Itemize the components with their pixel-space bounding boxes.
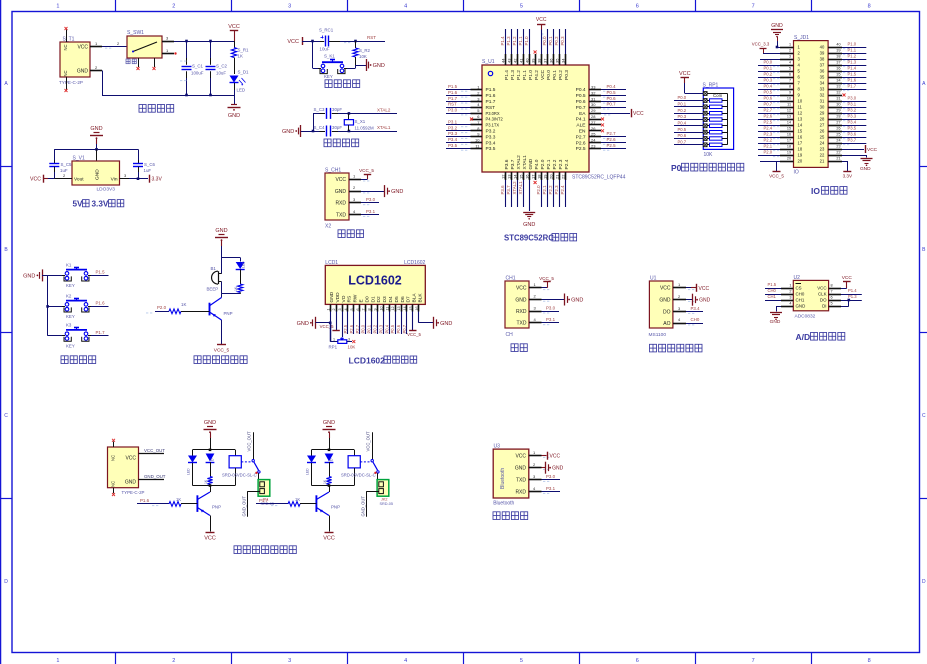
wire net P0.0 top [547,29,549,54]
svg-text:1: 1 [333,338,335,342]
svg-text:40: 40 [820,45,825,50]
svg-text:P1.2: P1.2 [848,54,857,59]
svg-text:GND: GND [552,466,564,472]
connector S_JD1 40-pin [794,41,829,168]
MCU S_U1 STC89C52RC_LQFP44 body [482,65,589,172]
svg-text:34: 34 [560,58,565,63]
svg-text:LDO3V3: LDO3V3 [97,187,116,193]
svg-text:D2: D2 [376,296,382,302]
svg-text:7: 7 [752,658,755,664]
ground GND right of LCD [418,312,420,323]
wire LDO top rail [54,149,138,151]
wire net P0.4 to RP1 [674,125,703,127]
ground GND keys [42,269,44,281]
svg-text:KEY: KEY [66,344,75,349]
svg-text:S_C3: S_C3 [314,107,326,112]
connector S_T1 TYPE-C-2P [60,42,90,77]
svg-text:P4.1: P4.1 [576,117,586,123]
svg-text:E: E [359,299,365,302]
wire JD1 pin3 [760,59,780,61]
svg-text:37: 37 [542,58,547,63]
svg-text:GND: GND [860,166,871,172]
wire net P0.7 left of JD1 [758,107,780,109]
svg-text:BLK: BLK [418,293,424,303]
svg-text:29: 29 [836,109,840,113]
svg-text:P3.0: P3.0 [448,108,458,113]
power port VCC_5 on LCD VDD [336,312,338,331]
svg-text:TYPE-C-2P: TYPE-C-2P [122,490,145,495]
svg-text:PNP: PNP [212,505,221,510]
svg-text:CH: CH [506,332,514,338]
ADC U2 ADC0832 [793,280,828,310]
pin 5 DI of U2 [829,306,841,308]
svg-text:3: 3 [338,308,342,310]
svg-text:MS1100: MS1100 [649,332,667,338]
svg-text:P3.6: P3.6 [500,185,505,195]
svg-text:VCC_5: VCC_5 [359,168,374,173]
wire net P2.7 left of JD1 [758,113,780,115]
svg-text:VCC: VCC [699,286,710,292]
wire net P2.7 of LCD pin 6 [359,312,361,335]
wire net P1.1 right of JD1 [842,53,866,55]
wire relay top rail [312,449,355,451]
svg-text:28: 28 [820,117,825,122]
wire net XTAL1 bottom [523,180,525,207]
wire net P3.7 bottom [511,180,513,207]
svg-text:P0.0: P0.0 [764,60,773,65]
wire net P0.5 to RP1 [674,132,703,134]
svg-text:GND: GND [297,321,309,327]
caption 复位电路 [325,80,332,88]
svg-text:10: 10 [379,306,383,310]
svg-text:VCC_5: VCC_5 [320,324,334,329]
svg-text:24: 24 [591,138,596,143]
svg-text:1uF: 1uF [144,168,152,173]
svg-text:VO: VO [341,295,347,302]
svg-text:P0.0: P0.0 [678,95,687,100]
wire P3.1 on U3 pin4 [542,491,561,493]
svg-text:GND: GND [659,298,671,304]
svg-text:P0.1: P0.1 [764,66,773,71]
svg-text:27: 27 [836,121,840,125]
svg-text:P2.6: P2.6 [607,137,617,142]
no-connect JD1 pin 32 [843,94,846,97]
connector S_CH1 X2 [325,173,349,220]
svg-text:P2.6: P2.6 [576,140,586,146]
svg-text:TXD: TXD [516,478,526,484]
wire net P0.3 left of JD1 [758,83,780,85]
wire reset top [313,41,321,43]
svg-text:P1.4: P1.4 [848,66,857,71]
svg-text:IO: IO [794,170,799,176]
svg-text:C: C [922,413,926,419]
svg-text:8: 8 [868,4,871,10]
wire net P0.2 top [559,29,561,54]
key K3 KEY [48,335,62,337]
svg-text:VDD: VDD [335,292,341,303]
svg-text:2: 2 [172,658,175,664]
power port VCC_5 on CH1 pin1 [542,287,548,289]
svg-text:VCC: VCC [633,111,644,117]
svg-text:KEY: KEY [66,314,75,319]
svg-text:P3.1: P3.1 [366,209,376,214]
svg-text:30pF: 30pF [332,125,342,130]
LED S_D1 [230,76,239,83]
svg-text:RXD: RXD [335,201,346,207]
svg-text:LED: LED [242,261,246,268]
svg-text:P1.2: P1.2 [512,36,517,46]
svg-text:S_CH1: S_CH1 [325,168,341,174]
svg-text:EA: EA [579,111,586,117]
wire net P1.3 on DO [841,300,862,302]
svg-text:8: 8 [368,308,372,310]
svg-text:RS: RS [347,296,353,303]
svg-text:P1.4: P1.4 [500,36,505,46]
svg-text:5: 5 [520,4,523,10]
pin 6 DO of U2 [829,300,841,302]
svg-text:VCC: VCC [660,286,671,292]
svg-text:6: 6 [831,295,833,299]
wire net P1.0 right of JD1 [842,47,866,49]
wire net P2.4 bottom [565,180,567,207]
connector TYPE-C-2P output [108,447,139,488]
wire net P0.6 left of JD1 [758,101,780,103]
wire net P3.7 right of JD1 [842,143,866,145]
svg-text:P1.5: P1.5 [448,84,458,89]
svg-text:1: 1 [326,308,330,310]
svg-text:P3.6: P3.6 [504,159,510,169]
svg-text:PNP: PNP [331,505,340,510]
svg-text:P1.5: P1.5 [848,72,857,77]
svg-text:XTAL1: XTAL1 [377,125,391,130]
svg-text:VCC: VCC [323,536,335,542]
svg-text:D5: D5 [394,296,400,302]
svg-text:P3.2: P3.2 [486,129,496,135]
wire net P0.7 [601,107,626,109]
svg-text:3: 3 [789,55,791,59]
wire net P2.5 of LCD pin 4 [347,312,349,335]
wire net P2.7 [601,136,626,138]
svg-text:8: 8 [789,85,791,89]
svg-text:36: 36 [548,58,553,63]
svg-text:P2.0: P2.0 [764,150,773,155]
svg-text:38: 38 [820,57,825,62]
svg-text:27: 27 [591,120,596,125]
svg-text:VCC_3.3: VCC_3.3 [752,42,770,47]
wire VCC to Com pin [685,93,704,95]
svg-text:17: 17 [530,174,535,179]
svg-text:VCC: VCC [540,69,546,80]
wire P3.0 on U3 pin3 [542,479,561,481]
svg-text:1K: 1K [181,302,186,307]
svg-text:31: 31 [591,96,596,101]
svg-text:36: 36 [820,69,825,74]
wire net P3.3 [446,136,471,138]
svg-text:44: 44 [500,58,505,63]
wire net P3.6 right of JD1 [842,137,866,139]
svg-text:GND: GND [329,291,335,302]
svg-text:GND: GND [323,420,335,426]
svg-text:CH0: CH0 [768,288,777,293]
wire net P0.7 of LCD pin 14 [406,312,408,335]
frame row ticks and letters [0,166,12,168]
wire net P2.3 bottom [559,180,561,207]
svg-text:38: 38 [836,55,840,59]
svg-text:GND: GND [770,319,781,325]
wire net P0.2 of LCD pin 9 [377,312,379,335]
svg-text:P0.5: P0.5 [678,127,687,132]
svg-text:10uF: 10uF [320,47,330,52]
wire net P0.0 to RP1 [674,100,703,102]
svg-text:P3.5: P3.5 [486,146,496,152]
svg-text:VCC: VCC [842,275,853,281]
svg-text:33: 33 [591,85,596,90]
resistor element P0.1 of RP1 [703,105,707,109]
resistor element P0.5 of RP1 [703,130,707,134]
svg-text:P3.6: P3.6 [848,132,857,137]
wire key right to junction [347,68,356,70]
svg-text:25: 25 [591,132,596,137]
svg-text:DO: DO [663,310,671,316]
wire net P1.5 right of JD1 [842,77,866,79]
svg-text:P1.5: P1.5 [96,270,106,275]
wire net P2.6 [601,142,626,144]
svg-text:28: 28 [591,114,596,119]
pin bottom no-connect of output connector [113,488,115,494]
wire net P0.5 left of JD1 [758,95,780,97]
svg-text:23: 23 [820,147,825,152]
svg-text:25: 25 [820,135,825,140]
svg-text:P2.1: P2.1 [542,185,547,195]
svg-text:RST: RST [448,102,457,107]
wire net P1.4 right of JD1 [842,71,866,73]
svg-text:P2.3: P2.3 [554,185,559,195]
svg-text:P3.0RX: P3.0RX [486,111,500,116]
svg-text:GND_OUT: GND_OUT [361,496,366,517]
svg-text:9: 9 [789,91,791,95]
svg-text:S_C1: S_C1 [192,64,204,69]
svg-text:7: 7 [789,79,791,83]
svg-text:31: 31 [820,99,825,104]
svg-text:RW: RW [353,294,359,302]
svg-text:LCD1602: LCD1602 [348,274,402,288]
transistor PNP of relay JK1 [196,495,198,512]
wire net P1.2 top [517,29,519,54]
svg-text:VCC: VCC [867,147,878,153]
svg-text:CH1: CH1 [768,294,777,299]
wire net P2.0 bottom [541,180,543,207]
wire XTAL2 [338,113,397,115]
ground GND crystal [300,125,302,137]
svg-text:P2.4: P2.4 [560,185,565,195]
svg-text:GND: GND [90,126,102,132]
svg-text:VCC: VCC [516,286,527,292]
svg-text:11: 11 [787,103,791,107]
svg-text:P3.1: P3.1 [546,317,556,322]
wire net P1.6 right of JD1 [842,83,866,85]
wire net P3.2 [446,130,471,132]
svg-text:GND_OUT: GND_OUT [242,496,247,517]
svg-text:SRD-05VDC-SL-C: SRD-05VDC-SL-C [341,472,376,477]
pin T1 bottom no-connect [66,77,68,90]
no-connect pin 17 P4.0 [534,181,537,184]
caption 下载口 [338,230,345,238]
svg-text:BLA: BLA [412,293,418,303]
svg-text:P1.7: P1.7 [448,96,458,101]
no-connect pin 26 [601,129,604,132]
wire net P1.6 [91,306,109,308]
svg-text:1K: 1K [176,497,181,502]
power port VCC on JD1 pin23 [842,149,864,151]
wire VCC_OUT from connector [139,453,165,455]
svg-text:42: 42 [512,58,517,63]
wire net P3.1 right of JD1 [842,107,866,109]
svg-text:P3.5: P3.5 [448,143,458,148]
svg-text:S_D1: S_D1 [238,70,250,75]
pin 4 of CH1 [529,322,542,324]
svg-text:P0.7: P0.7 [764,102,773,107]
resistor element P0.7 of RP1 [703,143,707,147]
svg-text:P3.4: P3.4 [486,140,496,146]
svg-text:GND: GND [77,69,89,75]
svg-text:15: 15 [787,127,791,131]
svg-text:P0.3: P0.3 [764,78,773,83]
svg-text:P3.0: P3.0 [848,96,857,101]
svg-text:VCC_OUT: VCC_OUT [365,431,370,451]
svg-text:31: 31 [836,97,840,101]
label 开关 (switch) [126,59,130,64]
pin 2 of X2 [349,191,361,193]
svg-text:8: 8 [831,283,833,287]
svg-text:CH1: CH1 [796,298,805,303]
svg-text:VCC: VCC [679,71,691,77]
svg-text:S_V1: S_V1 [73,156,85,162]
svg-text:3: 3 [789,295,791,299]
svg-text:39: 39 [530,58,535,63]
svg-text:XTAL2: XTAL2 [377,107,391,112]
connector JK JK1 SRD-05 [258,473,260,479]
svg-text:P2.7: P2.7 [355,324,360,333]
svg-text:20: 20 [798,159,803,164]
svg-text:19: 19 [787,151,791,155]
wire net P1.4 top [505,29,507,54]
svg-text:P1.2: P1.2 [516,70,522,80]
svg-text:P0.3: P0.3 [678,114,687,119]
no-connect pin 6 [470,118,473,121]
svg-text:RXD: RXD [516,309,527,315]
svg-text:11: 11 [385,307,389,311]
ground GND on CH1 pin2 [542,299,565,301]
svg-text:P2.4: P2.4 [564,159,570,169]
svg-text:23: 23 [836,145,840,149]
svg-text:14: 14 [787,121,791,125]
key K1 KEY [48,275,62,277]
svg-text:P3.7: P3.7 [848,138,857,143]
power port VCC_5 on LCD BLA [412,312,414,331]
svg-text:10: 10 [787,97,791,101]
power port VCC of relay JK1 [210,516,212,532]
wire net P3.4 [446,142,471,144]
caption 蓝牙模块 [493,512,500,520]
svg-text:7: 7 [752,4,755,10]
svg-text:21: 21 [836,157,840,161]
wire relay top rail [193,449,236,451]
svg-text:CH1: CH1 [506,276,516,282]
svg-text:37: 37 [820,63,825,68]
wire alarm bottom rail [222,293,241,295]
wire net P1.5 [446,89,471,91]
power port VCC at LDO input [48,178,54,180]
svg-text:21: 21 [820,159,825,164]
pin 4 of U1 sensor [673,323,686,325]
svg-text:CS: CS [796,286,802,291]
wire bottom rail [102,71,104,96]
svg-text:ALE: ALE [576,123,585,129]
LCD module LCD1 LCD1602 [325,265,425,304]
ground GND of power circuit [234,95,236,104]
no-connect pin 27 [601,123,604,126]
wire net P0.6 [601,101,626,103]
wire net P0.3 top [565,29,567,54]
resistor S_R2 10K [355,41,357,48]
svg-text:P2.5: P2.5 [576,146,586,152]
svg-text:LCD1: LCD1 [325,260,338,266]
resistor 1K of relay JK1 [207,477,212,485]
ground GND of U2 [776,306,781,308]
wire relay bottom rail [193,485,236,487]
pin 4 GND of U2 [781,306,793,308]
svg-text:D3: D3 [382,296,388,302]
svg-text:GND: GND [699,298,711,304]
wire net P3.0 right of JD1 [842,101,866,103]
wire CH0 on U1 pin4 [686,323,703,325]
pin 2 of U1 sensor [673,299,686,301]
svg-text:6: 6 [789,73,791,77]
svg-text:36: 36 [836,67,840,71]
wire net P1.2 right of JD1 [842,59,866,61]
svg-text:X2: X2 [325,224,331,230]
svg-text:5: 5 [831,301,833,305]
svg-text:S_C6: S_C6 [144,162,156,167]
wire net P0.1 to RP1 [674,106,703,108]
svg-text:P2.5: P2.5 [343,324,348,333]
svg-text:P1.5: P1.5 [768,282,777,287]
svg-text:17: 17 [787,139,791,143]
svg-text:P3.4: P3.4 [848,120,857,125]
diode D of relay JK1 [206,454,215,462]
svg-text:P0.2: P0.2 [373,324,378,333]
svg-text:VCC: VCC [515,454,526,460]
svg-text:1: 1 [56,658,59,664]
svg-text:P3.5: P3.5 [848,126,857,131]
svg-text:P3.4: P3.4 [691,306,701,311]
power port VCC of relay JK2 [329,516,331,532]
wire GND_OUT of relay JK2 [366,491,379,493]
svg-text:P2.0: P2.0 [157,305,167,310]
wire net P3.5 right of JD1 [842,131,866,133]
wire net P0.6 of LCD pin 13 [401,312,403,335]
potentiometer RP1 10K [330,323,332,342]
svg-text:4: 4 [404,658,407,664]
svg-text:P0.7: P0.7 [607,102,617,107]
svg-text:XTAL2: XTAL2 [516,155,522,170]
no-connect RP1 pin3 [347,341,352,343]
svg-text:D1: D1 [370,296,376,302]
svg-text:20: 20 [787,157,791,161]
svg-text:P0.1: P0.1 [678,101,687,106]
wire GND to JD1 pin1 [777,47,780,49]
svg-text:VCC: VCC [335,177,346,183]
